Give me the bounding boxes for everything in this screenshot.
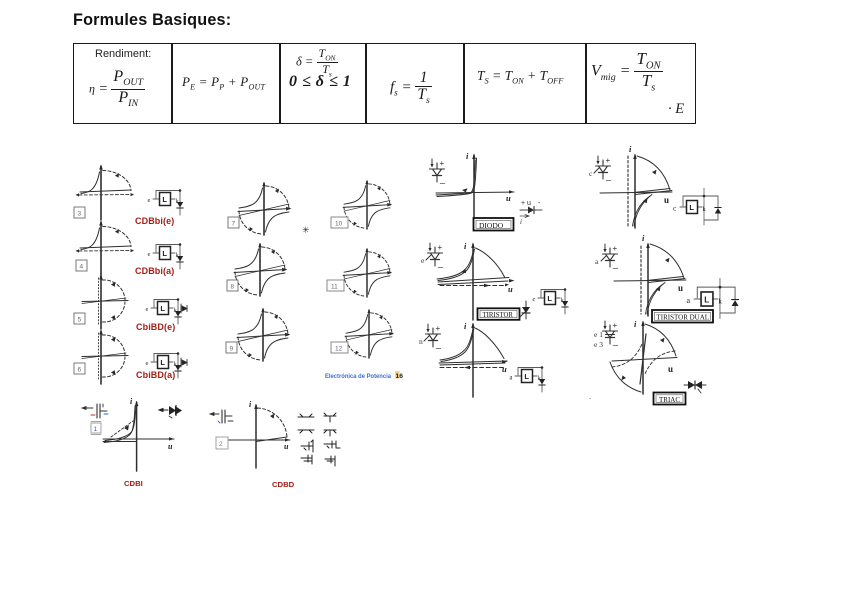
svg-text:2: 2 <box>219 441 223 448</box>
svg-text:11: 11 <box>331 284 338 291</box>
svg-text:7: 7 <box>232 221 236 228</box>
svg-text:c: c <box>673 204 677 213</box>
svg-text:c: c <box>589 169 593 178</box>
svg-text:4: 4 <box>80 264 84 271</box>
svg-text:3: 3 <box>78 211 82 218</box>
svg-text:i: i <box>634 319 637 329</box>
svg-text:i: i <box>466 151 469 161</box>
svg-text:8: 8 <box>231 284 235 291</box>
svg-text:i: i <box>464 321 467 331</box>
svg-text:CbiBD(e): CbiBD(e) <box>136 322 175 332</box>
svg-text:i: i <box>464 241 467 251</box>
svg-text:e 3: e 3 <box>594 340 603 349</box>
svg-text:+ u: + u <box>521 200 531 207</box>
svg-text:i: i <box>629 144 632 154</box>
svg-text:CbiBD(a): CbiBD(a) <box>136 370 175 380</box>
svg-text:e: e <box>421 256 425 265</box>
svg-text:i: i <box>520 218 522 226</box>
svg-text:u: u <box>502 364 507 374</box>
svg-text:CDBD: CDBD <box>272 480 295 489</box>
svg-text:i: i <box>130 397 133 406</box>
svg-text:u: u <box>664 195 669 205</box>
svg-text:CDBbi(e): CDBbi(e) <box>135 216 174 226</box>
svg-text:DIODO: DIODO <box>479 221 504 230</box>
svg-text:i: i <box>642 233 645 243</box>
svg-text:✳: ✳ <box>302 225 310 235</box>
svg-text:.: . <box>589 392 591 401</box>
svg-text:u: u <box>284 442 289 451</box>
svg-text:u: u <box>506 193 511 203</box>
svg-text:u: u <box>168 442 173 451</box>
svg-text:TIRISTOR: TIRISTOR <box>483 312 514 319</box>
svg-text:5: 5 <box>78 317 82 324</box>
svg-text:CDBI: CDBI <box>124 479 143 488</box>
svg-text:a: a <box>510 375 513 382</box>
svg-text:c: c <box>533 296 536 303</box>
svg-text:e 1: e 1 <box>594 330 603 339</box>
svg-text:1: 1 <box>94 426 98 433</box>
svg-text:u: u <box>508 284 513 294</box>
svg-text:TIRISTOR DUAL: TIRISTOR DUAL <box>657 314 710 322</box>
svg-text:i: i <box>249 400 252 409</box>
svg-text:-: - <box>538 200 541 207</box>
svg-text:a: a <box>686 296 690 305</box>
svg-text:10: 10 <box>335 221 343 228</box>
svg-text:a: a <box>595 257 599 266</box>
svg-text:12: 12 <box>335 346 343 353</box>
svg-text:CDBbi(a): CDBbi(a) <box>135 266 174 276</box>
svg-text:u: u <box>678 283 683 293</box>
svg-text:Electrónica de Potencia: Electrónica de Potencia <box>325 373 391 380</box>
svg-text:9: 9 <box>230 346 234 353</box>
svg-text:n: n <box>419 337 423 346</box>
svg-text:u: u <box>668 364 673 374</box>
svg-text:TRIAC: TRIAC <box>659 396 680 404</box>
svg-text:6: 6 <box>78 367 82 374</box>
svg-text:16: 16 <box>396 373 404 380</box>
